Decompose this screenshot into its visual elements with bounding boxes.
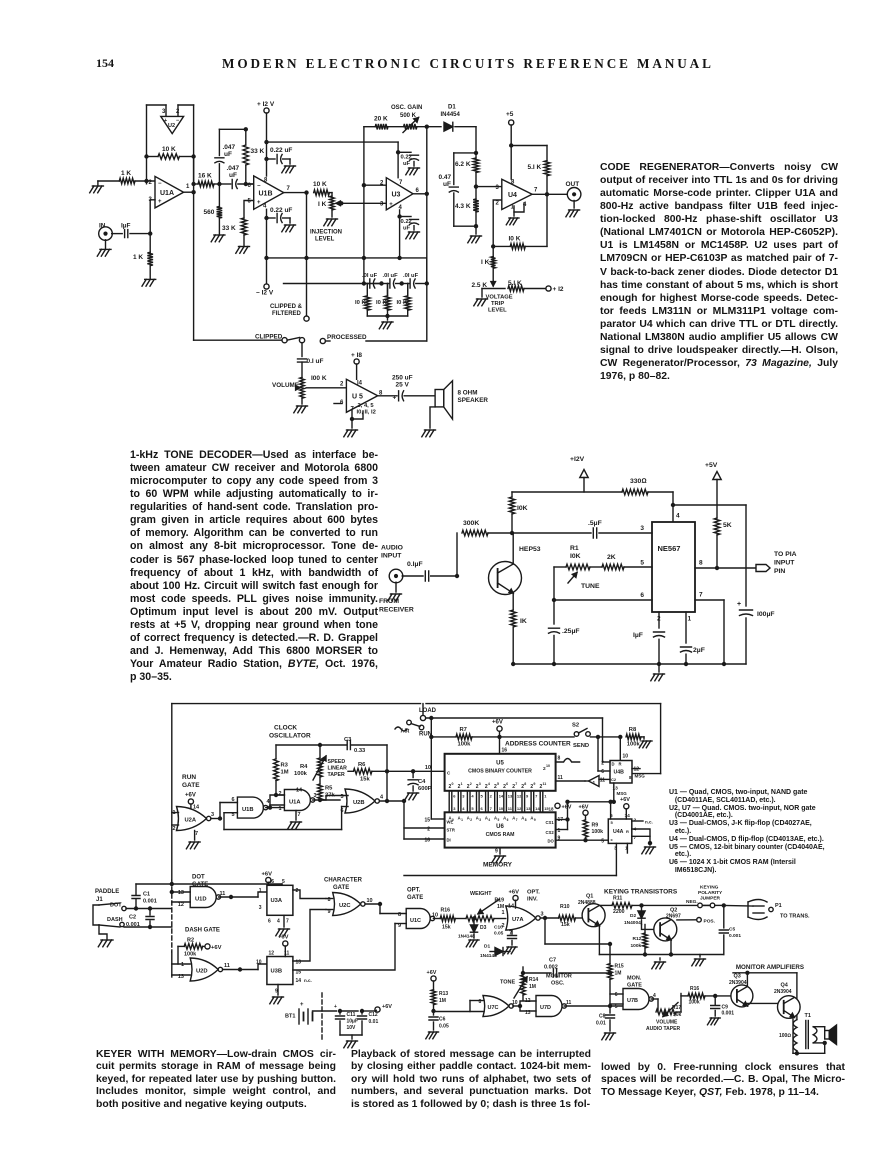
svg-text:7: 7 xyxy=(516,818,518,822)
svg-text:5: 5 xyxy=(640,560,644,567)
svg-text:R6: R6 xyxy=(358,762,366,768)
svg-text:11: 11 xyxy=(600,778,606,784)
svg-text:8: 8 xyxy=(699,560,703,567)
svg-text:IµF: IµF xyxy=(121,223,131,230)
svg-text:+6V: +6V xyxy=(579,805,589,811)
svg-text:CLIPPED: CLIPPED xyxy=(255,334,283,341)
svg-text:I0 K: I0 K xyxy=(376,300,387,306)
svg-text:+6V: +6V xyxy=(620,797,630,803)
svg-text:MONITOR AMPLIFIERS: MONITOR AMPLIFIERS xyxy=(736,964,804,971)
svg-text:IK: IK xyxy=(520,618,527,625)
svg-text:4: 4 xyxy=(488,818,490,822)
svg-text:6: 6 xyxy=(506,782,508,786)
svg-text:4: 4 xyxy=(653,993,656,999)
svg-text:2N3904: 2N3904 xyxy=(729,980,747,986)
svg-text:8: 8 xyxy=(524,782,526,786)
svg-text:0.33: 0.33 xyxy=(354,748,366,754)
svg-text:0.47: 0.47 xyxy=(439,174,452,181)
svg-text:HEP53: HEP53 xyxy=(519,546,541,553)
svg-text:LINEAR: LINEAR xyxy=(328,766,348,772)
svg-text:BT1: BT1 xyxy=(285,1014,295,1020)
svg-text:300K: 300K xyxy=(463,520,479,527)
svg-text:AUDIO TAPER: AUDIO TAPER xyxy=(646,1026,680,1032)
svg-text:U4: U4 xyxy=(508,192,517,199)
svg-text:13: 13 xyxy=(178,890,184,896)
svg-text:POS.: POS. xyxy=(704,919,715,925)
svg-text:C1: C1 xyxy=(143,892,150,898)
svg-text:4: 4 xyxy=(488,782,490,786)
svg-text:3: 3 xyxy=(479,782,481,786)
svg-text:6: 6 xyxy=(507,818,509,822)
svg-text:10: 10 xyxy=(623,754,629,760)
svg-text:7: 7 xyxy=(287,186,291,192)
svg-text:330Ω: 330Ω xyxy=(630,478,647,485)
svg-text:0.01: 0.01 xyxy=(596,1021,606,1027)
svg-text:OSC. GAIN: OSC. GAIN xyxy=(391,105,422,111)
svg-text:Q4: Q4 xyxy=(781,983,789,989)
svg-text:.047: .047 xyxy=(223,144,236,151)
svg-text:KEYING TRANSISTORS: KEYING TRANSISTORS xyxy=(604,889,678,896)
svg-text:4: 4 xyxy=(277,919,280,925)
svg-text:6: 6 xyxy=(453,794,456,799)
svg-text:10: 10 xyxy=(546,764,550,768)
svg-text:0.05: 0.05 xyxy=(439,1024,449,1030)
svg-text:D1: D1 xyxy=(484,944,490,950)
svg-text:R: R xyxy=(626,829,629,834)
svg-text:INJECTION: INJECTION xyxy=(310,230,342,236)
svg-text:U2D: U2D xyxy=(196,969,208,975)
svg-text:11: 11 xyxy=(224,963,230,969)
svg-text:D1: D1 xyxy=(448,105,456,111)
svg-text:NE567: NE567 xyxy=(658,544,681,553)
svg-text:U3B: U3B xyxy=(271,969,283,975)
svg-text:uF: uF xyxy=(224,151,232,158)
svg-text:600P: 600P xyxy=(418,786,432,792)
svg-text:+5: +5 xyxy=(506,111,514,118)
svg-text:14: 14 xyxy=(296,788,303,794)
svg-text:100k: 100k xyxy=(184,952,197,958)
svg-text:1M: 1M xyxy=(439,998,446,1004)
svg-text:I0 K: I0 K xyxy=(509,236,521,243)
svg-text:C10: C10 xyxy=(494,925,503,931)
svg-text:20 K: 20 K xyxy=(374,116,388,123)
svg-text:1 K: 1 K xyxy=(133,254,143,261)
svg-text:I4: I4 xyxy=(357,381,363,387)
svg-text:1: 1 xyxy=(259,888,262,894)
svg-text:R14: R14 xyxy=(529,977,538,983)
svg-text:−: − xyxy=(176,118,179,124)
svg-text:OPT.: OPT. xyxy=(407,888,421,894)
svg-text:DOT: DOT xyxy=(192,875,205,881)
svg-text:TRIP: TRIP xyxy=(491,301,504,307)
svg-text:2N697: 2N697 xyxy=(666,914,681,920)
svg-text:+6V: +6V xyxy=(492,720,503,726)
svg-text:OUT: OUT xyxy=(566,181,580,188)
svg-text:+I2V: +I2V xyxy=(570,456,585,463)
svg-text:+6V: +6V xyxy=(427,970,437,976)
svg-text:3: 3 xyxy=(380,202,384,208)
svg-text:AUDIO: AUDIO xyxy=(381,545,403,552)
svg-text:12: 12 xyxy=(634,767,640,773)
svg-text:MSG: MSG xyxy=(635,774,646,779)
svg-text:C7: C7 xyxy=(549,958,556,964)
svg-text:I0 K: I0 K xyxy=(355,300,366,306)
svg-text:100k: 100k xyxy=(294,771,308,777)
svg-text:1: 1 xyxy=(181,962,184,968)
svg-text:−: − xyxy=(257,184,261,190)
svg-text:560: 560 xyxy=(204,209,215,216)
svg-text:0.IµF: 0.IµF xyxy=(407,561,423,568)
svg-text:R9: R9 xyxy=(592,823,599,829)
svg-text:1: 1 xyxy=(279,806,282,812)
svg-text:1: 1 xyxy=(461,782,463,786)
svg-text:DASH: DASH xyxy=(107,917,123,923)
svg-text:+6V: +6V xyxy=(382,1004,392,1010)
svg-text:R: R xyxy=(619,762,622,767)
svg-text:R5: R5 xyxy=(325,786,333,792)
svg-text:0.01: 0.01 xyxy=(369,1019,379,1025)
svg-text:0.22 uF: 0.22 uF xyxy=(270,147,292,154)
svg-text:14: 14 xyxy=(296,978,302,984)
svg-text:+: + xyxy=(393,395,397,402)
svg-text:U3A: U3A xyxy=(271,898,283,904)
svg-text:4: 4 xyxy=(380,795,384,801)
svg-text:STR: STR xyxy=(447,828,455,833)
svg-text:U 5: U 5 xyxy=(352,394,363,401)
svg-text:7: 7 xyxy=(699,592,703,599)
svg-text:2200: 2200 xyxy=(613,909,625,915)
svg-text:T1: T1 xyxy=(805,1013,811,1019)
svg-text:+: + xyxy=(389,202,393,208)
svg-text:9: 9 xyxy=(534,818,536,822)
svg-text:6: 6 xyxy=(615,992,618,998)
svg-text:FILTERED: FILTERED xyxy=(272,311,302,317)
svg-text:n.c.: n.c. xyxy=(304,978,312,983)
svg-text:0.001: 0.001 xyxy=(143,899,157,905)
svg-text:6: 6 xyxy=(640,592,644,599)
svg-text:I00 K: I00 K xyxy=(311,375,327,382)
svg-text:6: 6 xyxy=(268,919,271,925)
svg-text:3: 3 xyxy=(640,525,644,532)
svg-text:10: 10 xyxy=(425,765,431,771)
svg-text:OSC.: OSC. xyxy=(551,981,565,987)
svg-text:C12: C12 xyxy=(369,1012,378,1018)
svg-text:0.001: 0.001 xyxy=(722,1011,735,1017)
svg-text:10µF: 10µF xyxy=(347,1019,359,1025)
svg-text:R2: R2 xyxy=(187,938,194,944)
svg-text:U1A: U1A xyxy=(289,800,301,806)
svg-text:11: 11 xyxy=(543,782,547,786)
svg-text:P1: P1 xyxy=(775,903,782,909)
svg-text:C2: C2 xyxy=(611,777,617,782)
svg-text:TONE: TONE xyxy=(500,980,516,986)
svg-text:2: 2 xyxy=(176,109,180,115)
svg-text:U7D: U7D xyxy=(540,1005,551,1011)
svg-text:uF: uF xyxy=(443,181,451,188)
svg-text:+: + xyxy=(257,200,261,206)
svg-text:MSG: MSG xyxy=(617,791,628,796)
svg-text:RECEIVER: RECEIVER xyxy=(379,607,414,614)
svg-text:+: + xyxy=(158,199,162,205)
svg-text:1: 1 xyxy=(461,818,463,822)
svg-text:16: 16 xyxy=(502,748,508,754)
svg-text:15: 15 xyxy=(424,818,430,824)
svg-text:4: 4 xyxy=(471,794,474,799)
svg-text:R15: R15 xyxy=(615,964,624,970)
svg-text:2: 2 xyxy=(490,794,493,799)
svg-text:5: 5 xyxy=(471,806,474,811)
svg-text:+ I8: + I8 xyxy=(351,352,362,359)
svg-text:R7: R7 xyxy=(460,727,467,733)
svg-text:100k: 100k xyxy=(458,742,472,748)
svg-text:DO: DO xyxy=(548,839,555,844)
svg-text:5: 5 xyxy=(601,839,604,845)
svg-text:.0I uF: .0I uF xyxy=(383,273,399,279)
svg-text:0: 0 xyxy=(452,782,454,786)
svg-text:+: + xyxy=(300,1002,304,1008)
svg-text:JUMPER: JUMPER xyxy=(700,896,721,902)
svg-text:1M: 1M xyxy=(281,770,289,776)
svg-text:10 K: 10 K xyxy=(313,181,327,188)
svg-text:.0I uF: .0I uF xyxy=(403,273,419,279)
svg-text:5.I K: 5.I K xyxy=(528,164,542,171)
svg-text:+6V: +6V xyxy=(562,805,572,811)
svg-text:4: 4 xyxy=(676,513,680,520)
svg-text:0.05: 0.05 xyxy=(494,931,504,937)
svg-text:U3: U3 xyxy=(392,192,401,199)
svg-text:1: 1 xyxy=(502,910,505,916)
svg-text:R17: R17 xyxy=(672,1005,681,1011)
svg-text:8: 8 xyxy=(558,756,561,762)
svg-text:14: 14 xyxy=(193,805,200,811)
svg-text:0.22: 0.22 xyxy=(401,219,412,225)
svg-text:7.5t: 7.5t xyxy=(400,729,409,735)
svg-text:LEVEL: LEVEL xyxy=(315,237,335,243)
svg-text:uF: uF xyxy=(229,172,237,179)
svg-text:.5µF: .5µF xyxy=(588,520,602,527)
svg-text:R16: R16 xyxy=(690,986,699,992)
svg-text:U1B: U1B xyxy=(259,191,273,198)
svg-text:C2: C2 xyxy=(129,915,136,921)
svg-text:3: 3 xyxy=(453,806,456,811)
svg-text:8: 8 xyxy=(511,180,515,186)
svg-text:4.3 K: 4.3 K xyxy=(455,203,471,210)
svg-text:18: 18 xyxy=(549,807,555,812)
svg-text:10: 10 xyxy=(256,960,262,966)
svg-text:33 K: 33 K xyxy=(222,225,236,232)
svg-text:D3: D3 xyxy=(480,925,487,931)
svg-text:DOT: DOT xyxy=(110,903,122,909)
svg-text:7: 7 xyxy=(490,806,493,811)
svg-text:NEG.: NEG. xyxy=(686,899,698,905)
svg-text:2K: 2K xyxy=(607,554,616,561)
svg-text:8: 8 xyxy=(264,178,268,184)
svg-text:+ I2 V: + I2 V xyxy=(257,101,275,108)
svg-text:CMOS RAM: CMOS RAM xyxy=(486,832,515,838)
svg-text:U1B: U1B xyxy=(242,807,254,813)
svg-text:MEMORY: MEMORY xyxy=(483,862,513,869)
svg-text:3: 3 xyxy=(314,793,317,799)
svg-text:7: 7 xyxy=(399,180,403,186)
svg-text:LOAD: LOAD xyxy=(419,708,437,714)
svg-text:250 uF: 250 uF xyxy=(392,375,413,382)
svg-text:+6V: +6V xyxy=(211,945,222,951)
svg-text:5: 5 xyxy=(481,794,484,799)
svg-text:POLARITY: POLARITY xyxy=(698,890,723,896)
svg-text:5: 5 xyxy=(497,782,499,786)
svg-text:U2C: U2C xyxy=(339,903,351,909)
svg-text:ADDRESS COUNTER: ADDRESS COUNTER xyxy=(505,741,571,748)
svg-text:+6V: +6V xyxy=(278,935,289,941)
svg-text:6: 6 xyxy=(601,769,604,775)
svg-text:I0 K: I0 K xyxy=(397,300,408,306)
svg-text:TO TRANS.: TO TRANS. xyxy=(780,914,810,920)
svg-text:I0K: I0K xyxy=(517,505,528,512)
svg-text:100k: 100k xyxy=(631,943,642,949)
svg-text:500 K: 500 K xyxy=(400,113,417,119)
svg-text:3: 3 xyxy=(496,185,500,191)
svg-text:7: 7 xyxy=(195,831,198,837)
svg-text:.25µF: .25µF xyxy=(562,628,580,635)
svg-text:−: − xyxy=(158,181,162,187)
svg-text:I K: I K xyxy=(318,201,327,208)
svg-text:12: 12 xyxy=(178,902,184,908)
svg-text:+6V: +6V xyxy=(262,872,273,878)
svg-text:R4: R4 xyxy=(300,764,308,770)
svg-text:RUN: RUN xyxy=(182,774,196,781)
svg-text:3, 4, 5: 3, 4, 5 xyxy=(358,403,375,409)
svg-text:C11: C11 xyxy=(347,1012,356,1018)
svg-text:IµF: IµF xyxy=(633,632,643,639)
svg-text:9: 9 xyxy=(526,794,529,799)
svg-text:C4: C4 xyxy=(418,779,426,785)
svg-text:D2: D2 xyxy=(630,913,636,919)
svg-text:100k: 100k xyxy=(689,1000,700,1006)
svg-text:10 K: 10 K xyxy=(162,146,176,153)
svg-text:2: 2 xyxy=(496,201,500,207)
svg-text:WE: WE xyxy=(447,820,454,825)
svg-text:R3: R3 xyxy=(281,763,289,769)
svg-text:DI: DI xyxy=(447,838,451,843)
svg-text:1 K: 1 K xyxy=(121,170,131,177)
svg-text:C8: C8 xyxy=(599,1014,606,1020)
svg-text:9: 9 xyxy=(533,782,535,786)
svg-text:U7C: U7C xyxy=(488,1005,499,1011)
svg-text:MON.: MON. xyxy=(627,976,642,982)
svg-text:WEIGHT: WEIGHT xyxy=(470,891,492,897)
svg-text:100Ω: 100Ω xyxy=(779,1033,791,1039)
svg-text:GATE: GATE xyxy=(627,983,642,989)
svg-text:1: 1 xyxy=(186,184,190,190)
svg-text:1N4148: 1N4148 xyxy=(458,934,475,940)
svg-text:GATE: GATE xyxy=(407,895,423,901)
svg-text:I00µF: I00µF xyxy=(757,611,775,618)
svg-text:TUNE: TUNE xyxy=(581,583,600,590)
svg-text:D: D xyxy=(612,762,615,767)
svg-text:1: 1 xyxy=(544,794,547,799)
svg-text:VOLUME: VOLUME xyxy=(656,1020,678,1026)
svg-text:PROCESSED: PROCESSED xyxy=(327,334,367,341)
svg-text:10: 10 xyxy=(512,1000,518,1006)
svg-text:R10: R10 xyxy=(560,904,570,910)
svg-text:0.001: 0.001 xyxy=(126,922,140,928)
svg-text:2N3904: 2N3904 xyxy=(774,989,792,995)
svg-text:2: 2 xyxy=(470,818,472,822)
svg-text:INV.: INV. xyxy=(527,897,538,903)
svg-text:6.2 K: 6.2 K xyxy=(455,161,471,168)
svg-text:0.22: 0.22 xyxy=(401,155,412,161)
svg-text:2µF: 2µF xyxy=(693,647,705,654)
svg-text:6: 6 xyxy=(481,806,484,811)
svg-text:CHARACTER: CHARACTER xyxy=(324,878,363,884)
svg-text:U6: U6 xyxy=(496,824,504,830)
svg-text:uF: uF xyxy=(403,226,411,232)
svg-text:CLIPPED &: CLIPPED & xyxy=(270,304,303,310)
svg-text:2: 2 xyxy=(470,782,472,786)
svg-text:.047: .047 xyxy=(227,165,240,172)
svg-text:CLOCK: CLOCK xyxy=(274,725,297,732)
svg-text:8 OHM: 8 OHM xyxy=(458,390,478,397)
svg-text:9: 9 xyxy=(495,849,498,855)
svg-text:14: 14 xyxy=(625,813,631,819)
svg-text:1N4004: 1N4004 xyxy=(624,920,641,926)
svg-text:2: 2 xyxy=(340,382,344,388)
svg-text:12: 12 xyxy=(269,951,275,957)
svg-text:SPEAKER: SPEAKER xyxy=(458,397,489,404)
svg-text:INPUT: INPUT xyxy=(774,560,795,567)
svg-text:C5: C5 xyxy=(729,927,735,933)
svg-text:2: 2 xyxy=(173,826,176,832)
svg-text:33 K: 33 K xyxy=(251,148,265,155)
svg-text:CS2: CS2 xyxy=(546,830,555,835)
svg-text:CS1: CS1 xyxy=(546,820,555,825)
svg-text:0.001: 0.001 xyxy=(729,933,741,939)
svg-text:+5V: +5V xyxy=(705,462,718,469)
svg-text:R13: R13 xyxy=(439,991,448,997)
svg-text:1M: 1M xyxy=(529,984,536,990)
svg-text:+: + xyxy=(164,118,167,124)
svg-text:5: 5 xyxy=(498,818,500,822)
svg-text:3: 3 xyxy=(462,794,465,799)
svg-text:0.22 uF: 0.22 uF xyxy=(270,207,292,214)
svg-text:+: + xyxy=(334,1004,337,1010)
svg-text:SEND: SEND xyxy=(573,743,589,749)
svg-text:R16: R16 xyxy=(441,908,451,914)
svg-text:7: 7 xyxy=(515,782,517,786)
svg-text:U2B: U2B xyxy=(353,800,365,806)
svg-text:R8: R8 xyxy=(629,727,637,733)
svg-text:Q3: Q3 xyxy=(734,974,741,980)
svg-text:U7B: U7B xyxy=(627,998,638,1004)
svg-text:1M: 1M xyxy=(615,971,622,977)
svg-text:7: 7 xyxy=(534,188,538,194)
svg-text:14: 14 xyxy=(508,904,515,910)
svg-text:0.I uF: 0.I uF xyxy=(307,358,324,365)
svg-text:11: 11 xyxy=(220,891,226,897)
svg-text:7: 7 xyxy=(286,919,289,925)
svg-text:S2: S2 xyxy=(572,723,579,729)
svg-text:R1: R1 xyxy=(570,545,579,552)
svg-text:IN4454: IN4454 xyxy=(441,112,461,118)
svg-text:11: 11 xyxy=(508,806,513,811)
svg-text:C6: C6 xyxy=(439,1017,446,1023)
svg-text:I0K: I0K xyxy=(570,553,581,560)
svg-text:15k: 15k xyxy=(561,922,570,928)
svg-text:R19: R19 xyxy=(495,898,505,904)
svg-text:VOLTAGE: VOLTAGE xyxy=(486,295,513,301)
svg-text:100k: 100k xyxy=(627,742,641,748)
svg-text:GATE: GATE xyxy=(182,782,200,789)
